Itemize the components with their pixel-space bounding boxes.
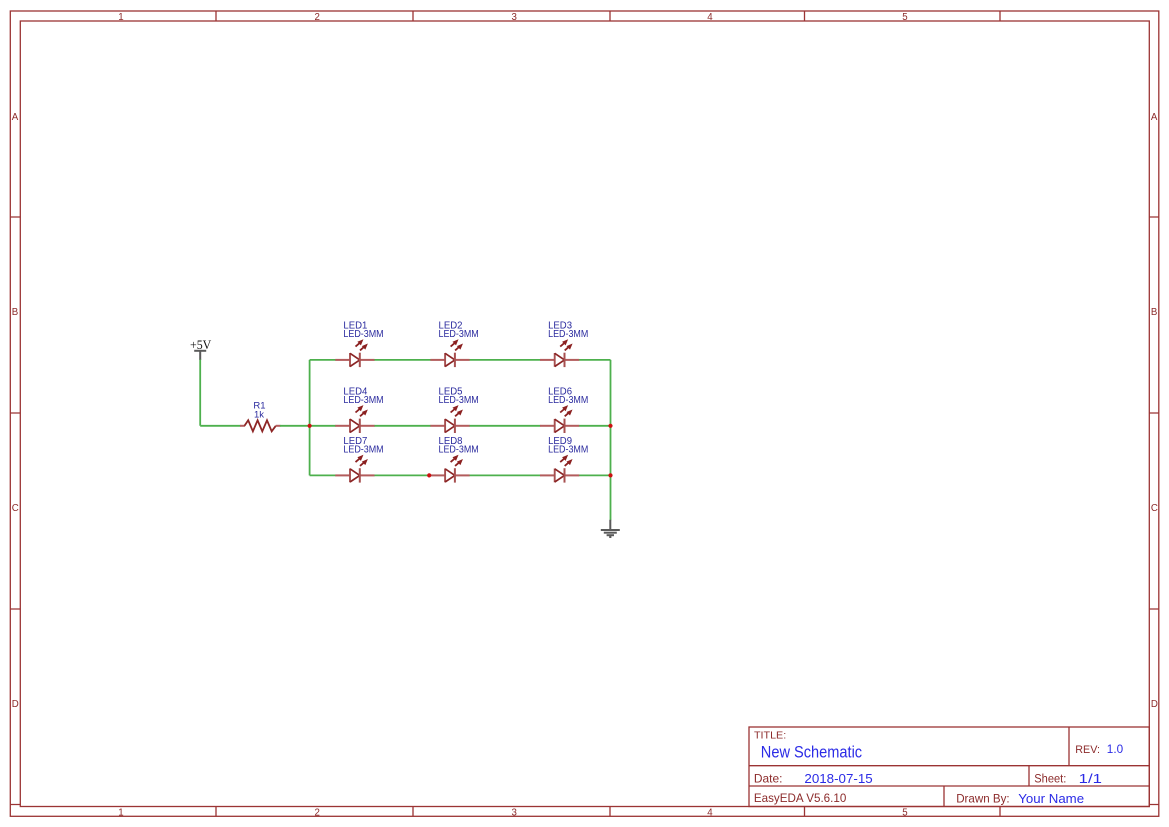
svg-text:LED-3MM: LED-3MM (548, 395, 588, 406)
frame column labels bottom (118, 808, 907, 819)
svg-text:REV:: REV: (1075, 744, 1100, 756)
title block outline (749, 727, 1149, 807)
svg-text:LED-3MM: LED-3MM (548, 445, 588, 456)
svg-text:C: C (12, 503, 19, 514)
frame column labels top (118, 12, 907, 23)
wire top row seg2 (374, 359, 431, 361)
LED LED5 (430, 386, 478, 433)
wire top row seg4 (579, 359, 611, 361)
junction node R1 output (308, 424, 312, 428)
wire right bus vertical (610, 360, 612, 520)
title block divider Sheet (1028, 766, 1030, 786)
wire top row seg3 (469, 359, 540, 361)
power flag +5V (190, 338, 212, 360)
svg-text:2018-07-15: 2018-07-15 (804, 771, 872, 786)
svg-text:LED-3MM: LED-3MM (439, 445, 479, 456)
frame row labels right (1151, 112, 1158, 710)
LED LED3 (540, 320, 588, 367)
svg-text:5: 5 (902, 808, 907, 819)
frame band closures bottom (10, 804, 1159, 806)
LED LED9 (540, 436, 588, 483)
title block divider REV (1068, 727, 1070, 766)
svg-text:1: 1 (118, 808, 123, 819)
wire top row seg1 (310, 359, 336, 361)
frame row ticks left (10, 217, 20, 609)
svg-text:4: 4 (707, 12, 713, 23)
wire mid row seg2 (374, 425, 431, 427)
svg-text:4: 4 (707, 808, 713, 819)
svg-text:3: 3 (512, 12, 517, 23)
junction node bottom row (427, 473, 431, 477)
svg-text:LED-3MM: LED-3MM (439, 329, 479, 340)
svg-text:A: A (12, 112, 19, 123)
svg-text:1.0: 1.0 (1107, 742, 1124, 756)
svg-text:B: B (12, 307, 18, 318)
ground symbol (601, 520, 620, 537)
title block row line 2 (749, 785, 1149, 787)
svg-text:Date:: Date: (754, 772, 783, 786)
LED LED1 (335, 320, 383, 367)
svg-text:1k: 1k (254, 409, 264, 420)
LED LED6 (540, 386, 588, 433)
title block row line 1 (749, 765, 1149, 767)
title block divider DrawnBy (943, 786, 945, 807)
frame column ticks bottom (216, 807, 1000, 817)
svg-text:TITLE:: TITLE: (754, 731, 786, 742)
wire bottom row seg2 (374, 474, 431, 476)
frame column ticks top (216, 11, 1000, 21)
svg-text:C: C (1151, 503, 1158, 514)
frame row labels left (12, 112, 19, 710)
svg-text:5: 5 (902, 12, 907, 23)
wire bottom row seg3 (469, 474, 540, 476)
svg-text:1/1: 1/1 (1079, 771, 1102, 786)
frame row ticks right (1149, 217, 1159, 609)
svg-text:Your Name: Your Name (1018, 791, 1084, 806)
svg-text:Drawn By:: Drawn By: (956, 792, 1009, 806)
svg-text:B: B (1151, 307, 1157, 318)
wire to resistor R1 (200, 425, 240, 427)
LED LED7 (335, 436, 383, 483)
svg-text:2: 2 (315, 12, 320, 23)
svg-text:D: D (1151, 699, 1158, 710)
svg-text:3: 3 (512, 808, 517, 819)
junction node right bottom (608, 473, 612, 477)
svg-text:LED-3MM: LED-3MM (439, 395, 479, 406)
wire from +5V down (199, 360, 201, 426)
svg-text:LED-3MM: LED-3MM (343, 395, 383, 406)
wire bottom row seg1 (310, 474, 336, 476)
wire mid row seg1 (310, 425, 336, 427)
junction node right mid (608, 424, 612, 428)
svg-text:LED-3MM: LED-3MM (548, 329, 588, 340)
svg-text:EasyEDA V5.6.10: EasyEDA V5.6.10 (754, 791, 847, 805)
wire mid row seg4 (579, 425, 611, 427)
wire bottom row seg4 (579, 474, 611, 476)
svg-text:A: A (1151, 112, 1158, 123)
wire resistor to node (280, 425, 310, 427)
svg-text:2: 2 (315, 808, 320, 819)
LED LED2 (430, 320, 478, 367)
svg-text:D: D (12, 699, 19, 710)
svg-text:Sheet:: Sheet: (1034, 772, 1066, 786)
svg-text:LED-3MM: LED-3MM (343, 445, 383, 456)
LED LED8 (430, 436, 478, 483)
wire mid row seg3 (469, 425, 540, 427)
svg-text:1: 1 (118, 12, 123, 23)
LED LED4 (335, 386, 383, 433)
resistor R1 (240, 401, 281, 432)
svg-text:New Schematic: New Schematic (761, 744, 862, 762)
wire left bus vertical (309, 360, 311, 476)
svg-text:LED-3MM: LED-3MM (343, 329, 383, 340)
